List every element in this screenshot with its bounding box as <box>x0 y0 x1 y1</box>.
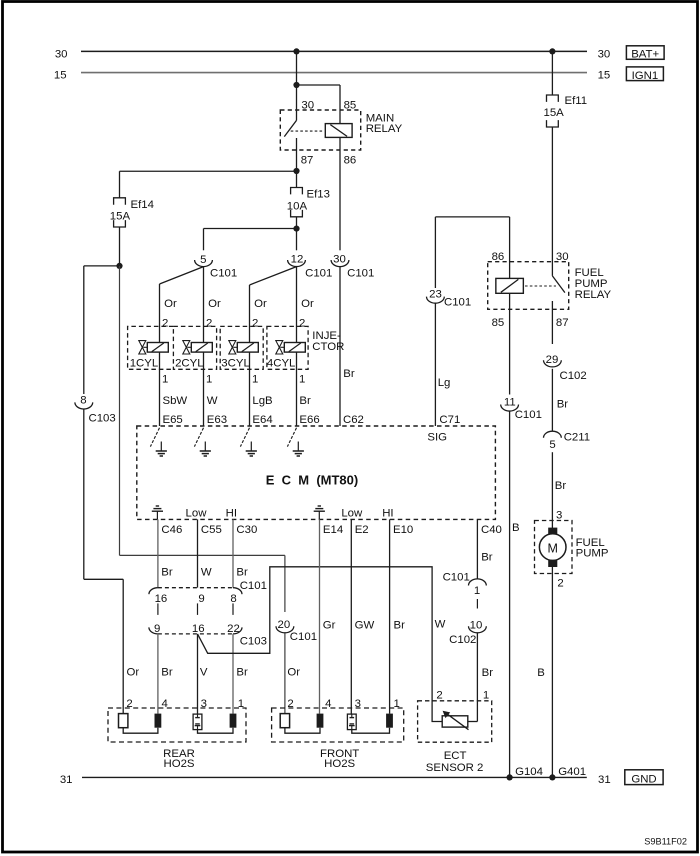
svg-text:Br: Br <box>343 368 355 380</box>
svg-text:2: 2 <box>126 698 132 710</box>
svg-text:Or: Or <box>127 667 140 679</box>
svg-text:12: 12 <box>291 254 304 266</box>
svg-text:E63: E63 <box>207 414 227 426</box>
svg-text:C101: C101 <box>210 268 237 280</box>
svg-text:M: M <box>547 542 557 556</box>
svg-text:1: 1 <box>252 374 258 386</box>
svg-text:E64: E64 <box>252 414 272 426</box>
svg-text:S9B11F02: S9B11F02 <box>644 837 687 847</box>
svg-text:Gr: Gr <box>323 620 336 632</box>
svg-text:C101: C101 <box>443 572 470 584</box>
svg-text:Low: Low <box>186 507 208 519</box>
svg-text:87: 87 <box>301 155 314 167</box>
svg-text:2: 2 <box>206 317 212 329</box>
svg-text:1: 1 <box>394 698 400 710</box>
svg-text:RELAY: RELAY <box>575 289 612 301</box>
svg-text:C40: C40 <box>481 524 502 536</box>
svg-text:30: 30 <box>301 99 314 111</box>
svg-text:29: 29 <box>546 354 559 366</box>
svg-text:4: 4 <box>325 698 331 710</box>
svg-text:8: 8 <box>230 593 236 605</box>
svg-text:IGN1: IGN1 <box>632 70 659 82</box>
svg-text:20: 20 <box>278 619 291 631</box>
svg-text:C101: C101 <box>515 409 542 421</box>
svg-text:C71: C71 <box>439 414 460 426</box>
svg-text:2CYL: 2CYL <box>175 358 204 370</box>
svg-text:V: V <box>200 667 208 679</box>
svg-text:2: 2 <box>557 577 563 589</box>
svg-text:Br: Br <box>299 395 311 407</box>
svg-text:HI: HI <box>382 507 393 519</box>
svg-text:C102: C102 <box>560 370 587 382</box>
svg-text:C211: C211 <box>564 432 590 444</box>
svg-text:ECT: ECT <box>444 750 467 762</box>
svg-text:10: 10 <box>470 620 483 632</box>
svg-text:3: 3 <box>556 510 562 522</box>
svg-text:E14: E14 <box>323 524 343 536</box>
svg-text:15A: 15A <box>544 107 565 119</box>
svg-text:Ef13: Ef13 <box>307 188 330 200</box>
svg-text:E10: E10 <box>393 524 413 536</box>
svg-text:Or: Or <box>254 298 267 310</box>
svg-text:SIG: SIG <box>427 431 447 443</box>
svg-text:W: W <box>435 619 446 631</box>
svg-text:Or: Or <box>301 298 314 310</box>
svg-text:GND: GND <box>631 774 656 786</box>
svg-text:LgB: LgB <box>252 395 272 407</box>
svg-text:2: 2 <box>299 317 305 329</box>
svg-text:C62: C62 <box>343 414 364 426</box>
svg-text:Br: Br <box>394 620 406 632</box>
svg-text:85: 85 <box>492 317 505 329</box>
svg-text:E2: E2 <box>355 524 369 536</box>
svg-text:1: 1 <box>238 698 244 710</box>
svg-text:85: 85 <box>344 99 357 111</box>
svg-text:C101: C101 <box>305 268 332 280</box>
svg-text:87: 87 <box>556 317 569 329</box>
svg-text:Br: Br <box>482 667 494 679</box>
svg-text:E66: E66 <box>299 414 319 426</box>
svg-text:BAT+: BAT+ <box>631 49 659 61</box>
svg-text:Ef11: Ef11 <box>565 95 588 107</box>
svg-text:W: W <box>207 395 218 407</box>
svg-text:15A: 15A <box>110 210 131 222</box>
svg-text:Br: Br <box>481 552 493 564</box>
svg-text:Br: Br <box>557 399 569 411</box>
svg-text:3: 3 <box>201 698 207 710</box>
svg-text:1: 1 <box>299 374 305 386</box>
svg-text:Br: Br <box>555 480 567 492</box>
svg-text:Br: Br <box>236 567 248 579</box>
svg-text:SENSOR 2: SENSOR 2 <box>426 762 484 774</box>
svg-text:11: 11 <box>504 397 516 409</box>
svg-text:4CYL: 4CYL <box>267 358 296 370</box>
svg-text:Or: Or <box>208 298 221 310</box>
svg-text:C102: C102 <box>449 634 476 646</box>
svg-text:C46: C46 <box>161 524 182 536</box>
svg-text:15: 15 <box>598 70 611 82</box>
svg-text:Ef14: Ef14 <box>131 199 154 211</box>
svg-text:23: 23 <box>429 288 442 300</box>
svg-text:Or: Or <box>164 298 177 310</box>
svg-text:86: 86 <box>492 251 505 263</box>
svg-text:8: 8 <box>80 394 86 406</box>
svg-text:C101: C101 <box>347 268 374 280</box>
svg-text:10A: 10A <box>287 200 308 212</box>
svg-text:HI: HI <box>226 507 237 519</box>
svg-text:5: 5 <box>200 254 206 266</box>
svg-text:C101: C101 <box>240 580 267 592</box>
svg-text:9: 9 <box>198 593 204 605</box>
svg-text:CTOR: CTOR <box>312 341 344 353</box>
svg-text:86: 86 <box>344 155 357 167</box>
svg-text:Low: Low <box>341 507 363 519</box>
svg-text:30: 30 <box>598 49 611 61</box>
svg-text:E C M (MT80): E C M (MT80) <box>266 473 358 488</box>
svg-text:2: 2 <box>287 698 293 710</box>
svg-text:31: 31 <box>598 774 611 786</box>
svg-text:1: 1 <box>162 374 168 386</box>
svg-text:C101: C101 <box>290 631 317 643</box>
svg-text:C55: C55 <box>201 524 222 536</box>
svg-text:B: B <box>537 667 545 679</box>
svg-text:SbW: SbW <box>163 395 188 407</box>
svg-text:16: 16 <box>192 623 205 635</box>
svg-text:C30: C30 <box>236 524 257 536</box>
svg-text:HO2S: HO2S <box>324 758 355 770</box>
svg-text:Br: Br <box>161 667 173 679</box>
svg-text:1CYL: 1CYL <box>130 358 159 370</box>
svg-text:2: 2 <box>252 317 258 329</box>
svg-text:Lg: Lg <box>438 377 451 389</box>
svg-text:Br: Br <box>236 667 248 679</box>
svg-text:C103: C103 <box>89 413 116 425</box>
svg-text:W: W <box>201 567 212 579</box>
svg-text:B: B <box>512 522 520 534</box>
svg-text:RELAY: RELAY <box>366 123 403 135</box>
svg-text:G401: G401 <box>558 766 586 778</box>
svg-text:15: 15 <box>54 70 67 82</box>
svg-text:4: 4 <box>162 698 168 710</box>
svg-text:PUMP: PUMP <box>576 547 609 559</box>
svg-text:Br: Br <box>161 567 173 579</box>
svg-text:2: 2 <box>436 689 442 701</box>
svg-text:31: 31 <box>60 774 73 786</box>
svg-text:E65: E65 <box>163 414 183 426</box>
svg-text:1: 1 <box>483 689 489 701</box>
svg-text:C103: C103 <box>240 636 267 648</box>
svg-text:3CYL: 3CYL <box>221 358 250 370</box>
svg-text:HO2S: HO2S <box>163 758 194 770</box>
svg-text:1: 1 <box>206 374 212 386</box>
svg-text:3: 3 <box>355 698 361 710</box>
svg-text:30: 30 <box>55 49 68 61</box>
svg-text:C101: C101 <box>444 296 471 308</box>
svg-text:2: 2 <box>162 317 168 329</box>
svg-text:30: 30 <box>333 254 346 266</box>
svg-text:G104: G104 <box>515 766 543 778</box>
svg-text:Or: Or <box>287 666 300 678</box>
svg-text:GW: GW <box>355 620 375 632</box>
svg-text:30: 30 <box>556 251 569 263</box>
svg-text:1: 1 <box>474 585 480 597</box>
svg-text:5: 5 <box>549 439 555 451</box>
svg-text:16: 16 <box>155 593 168 605</box>
